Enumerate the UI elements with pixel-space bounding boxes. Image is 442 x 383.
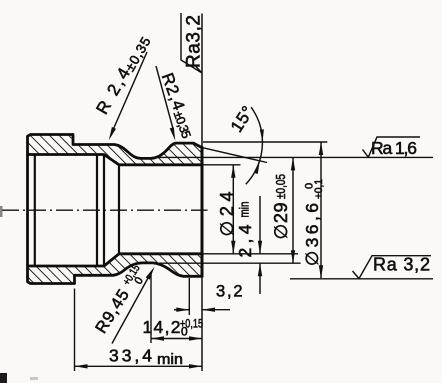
extension line: crest top y=142 <box>203 141 327 143</box>
extension line x=189.3 (3,2 left) <box>188 278 190 315</box>
surface mark Ra 1,6 (on groove floor line) <box>363 137 421 157</box>
part body: top wall section (hatched) <box>28 135 203 284</box>
extension line: groove floor top (dia29 / Ra 1,6) y=157.4 <box>153 156 433 158</box>
15deg dimension arc <box>246 107 263 184</box>
dim 14,2 line <box>151 338 202 340</box>
2,4 min label <box>235 202 255 258</box>
dia29 label <box>271 174 291 240</box>
svg-text:∅36,6: ∅36,6 <box>302 203 322 266</box>
dim 2,4 min legs <box>259 196 261 253</box>
dim 33,4 line <box>75 365 203 367</box>
bore vertical x=119 (chamfer end circle) <box>118 165 120 254</box>
arc arrow at crest line <box>260 129 264 141</box>
extension line: bore top (dia 24) y=164.8 <box>203 164 241 166</box>
R9,45 label <box>92 263 151 339</box>
left face edge line across bore opening <box>26 155 29 267</box>
svg-text:0: 0 <box>181 325 188 339</box>
svg-text:Ra 3,2: Ra 3,2 <box>373 255 430 275</box>
bore vertical x=97 <box>96 155 98 267</box>
bore vertical: face chamfer circle x=34.8 <box>34 155 36 267</box>
leader R2,4 no.2 line <box>156 66 174 131</box>
svg-text:2,4: 2,4 <box>235 224 255 257</box>
extension line: part right face vertical (thin, full height) <box>201 14 203 372</box>
dim line dia24 <box>232 165 234 254</box>
surface mark Ra3,2 vertical (on face extension line) <box>181 13 202 73</box>
arc arrow at 15deg line <box>254 161 260 174</box>
leader R9,45 arrowhead <box>146 267 155 280</box>
15deg chamfer construction line <box>202 148 267 163</box>
svg-text:±0,05: ±0,05 <box>273 174 288 199</box>
leader R9,45 line <box>112 278 148 344</box>
leader R2,4 no.1 arrowhead <box>109 127 116 140</box>
svg-text:Ra3,2: Ra3,2 <box>184 15 205 68</box>
surface mark Ra 3,2 bottom (on bottom crest line) <box>353 256 432 279</box>
svg-text:33,4: 33,4 <box>109 346 152 366</box>
part right face (thick) <box>201 147 204 278</box>
scan smudge bottom-left corner <box>0 373 7 383</box>
extension line: groove floor bottom y=263.2 <box>150 262 301 264</box>
extension line: bore bottom y=253.8 <box>203 253 298 255</box>
dim line dia36,6 <box>320 142 322 278</box>
extension line x=151 (14,2 left) <box>150 272 152 343</box>
leader R2,4 no.2 arrowhead <box>170 127 176 141</box>
extension line: bottom crest / Ra 3,2 line y=278.8 <box>290 278 433 280</box>
svg-text:0: 0 <box>304 183 316 189</box>
dim 3,2 line <box>174 309 189 311</box>
svg-text:14,2: 14,2 <box>143 317 181 337</box>
svg-text:∅29: ∅29 <box>271 203 291 240</box>
dim line dia29 <box>292 157 294 263</box>
svg-text:Ra 1,6: Ra 1,6 <box>371 138 417 158</box>
svg-text:∅24: ∅24 <box>217 192 237 237</box>
svg-text:min: min <box>237 202 252 218</box>
extension line x=74.5 (33,4 left) <box>74 289 76 372</box>
dia36,6 label <box>302 179 325 266</box>
bore vertical x=104 (chamfer start circle) <box>103 155 105 267</box>
part body: bottom wall section (hatched) <box>28 254 203 284</box>
svg-text:min: min <box>157 352 183 368</box>
centerline <box>2 209 208 211</box>
leader R2,4 no.1 line <box>113 52 148 131</box>
svg-text:3,2: 3,2 <box>216 283 243 301</box>
